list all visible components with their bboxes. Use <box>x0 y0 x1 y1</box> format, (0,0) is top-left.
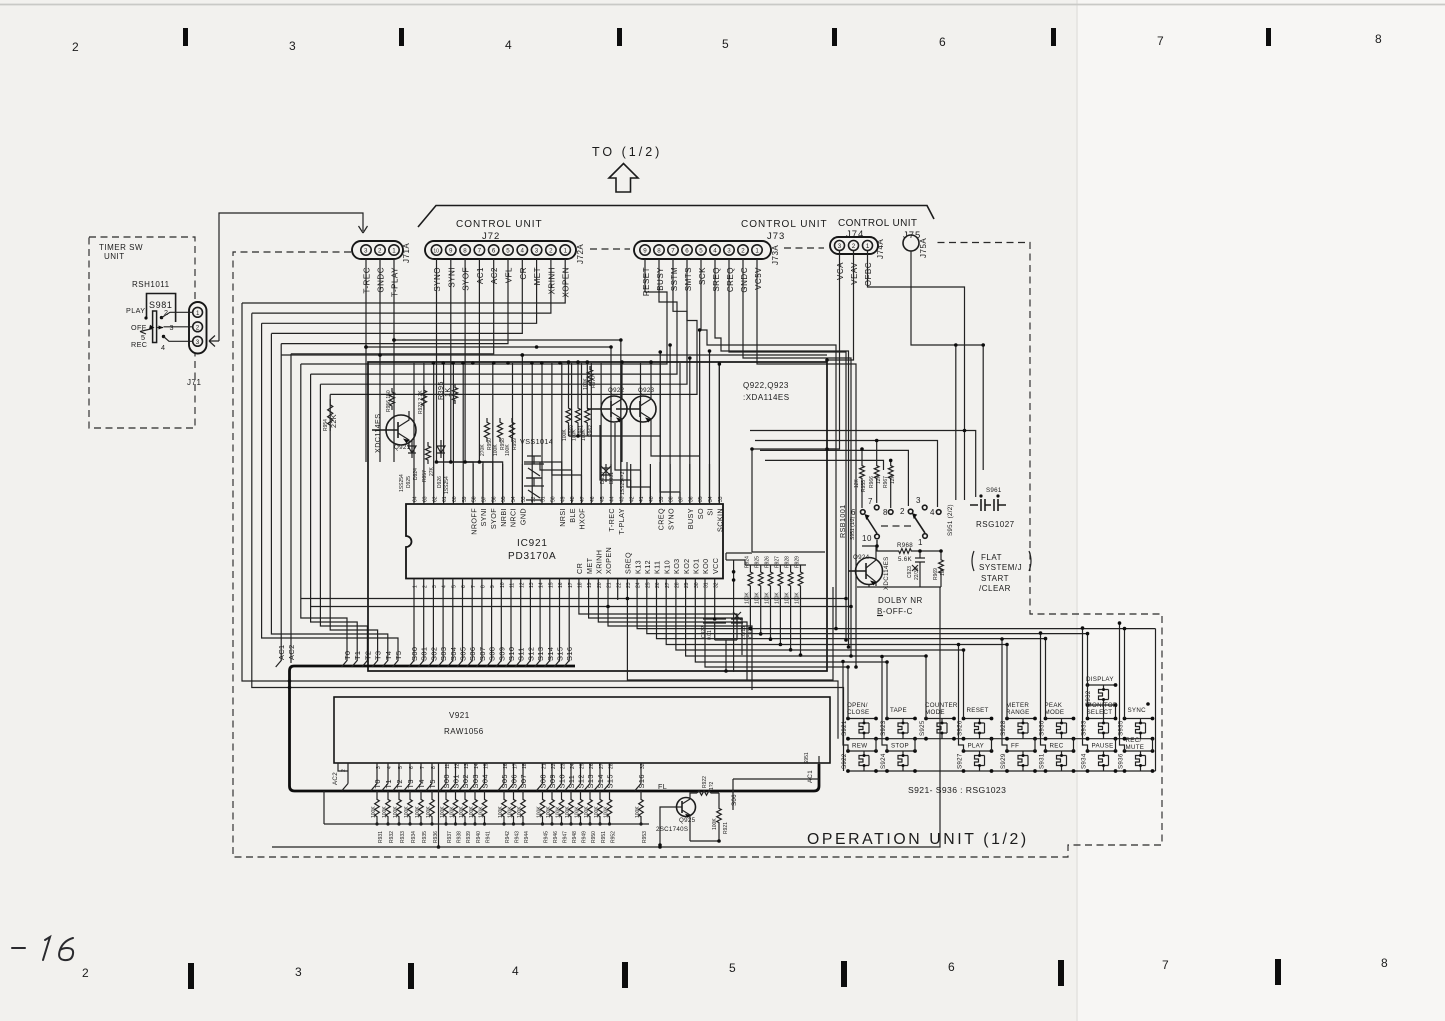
svg-text:21: 21 <box>607 582 613 588</box>
svg-text:R937: R937 <box>447 831 453 843</box>
svg-text:XRINH: XRINH <box>595 550 604 574</box>
resistor R953 100K <box>640 791 642 796</box>
svg-text:S16: S16 <box>565 647 574 661</box>
svg-text:R922: R922 <box>702 776 708 788</box>
label FLAT SYSTEM/J <box>972 551 1031 571</box>
op-amp IC921 PD3170A body <box>406 504 723 579</box>
svg-text:46: 46 <box>590 496 596 502</box>
svg-text:S01: S01 <box>420 647 429 661</box>
wire VCA <box>827 251 840 449</box>
svg-text:K11: K11 <box>653 561 662 574</box>
svg-text:CREQ: CREQ <box>657 508 666 530</box>
svg-text:16: 16 <box>558 582 564 588</box>
svg-text:AC2: AC2 <box>287 644 296 660</box>
svg-text:D931: D931 <box>609 472 615 484</box>
svg-text:100K: 100K <box>507 806 513 818</box>
svg-text:S14: S14 <box>546 647 555 661</box>
svg-text:J71: J71 <box>187 378 201 387</box>
svg-text:T2: T2 <box>363 651 372 660</box>
svg-text:RESET: RESET <box>967 707 989 714</box>
svg-text:S00: S00 <box>410 647 419 661</box>
svg-text:SYNI: SYNI <box>479 508 488 526</box>
svg-text:XOPEN: XOPEN <box>562 267 571 298</box>
resistor ladder common rail <box>324 791 649 824</box>
svg-text:8: 8 <box>883 508 888 517</box>
svg-text:14: 14 <box>474 763 480 769</box>
wire bundle J72 pins 1-6 to left bus <box>242 259 565 354</box>
resistor R968 5.6K <box>896 549 914 554</box>
svg-text:R951: R951 <box>601 831 607 843</box>
svg-text:R923 2.2K: R923 2.2K <box>418 390 424 414</box>
connector J71A <box>352 241 411 263</box>
svg-text:XRINH: XRINH <box>547 267 556 294</box>
svg-text:5: 5 <box>729 961 737 975</box>
svg-text:K13: K13 <box>633 560 642 574</box>
svg-text:63: 63 <box>423 496 429 502</box>
resistor R923 2.2K <box>421 386 426 410</box>
svg-text:C923: C923 <box>907 566 913 578</box>
rotary contact numbers <box>851 496 935 547</box>
IC921 bottom pin stubs and numbers 1-32 <box>414 579 715 601</box>
svg-text:23: 23 <box>561 763 567 769</box>
svg-text:STOP: STOP <box>891 743 909 750</box>
svg-text:S951 (1/2): S951 (1/2) <box>850 516 856 540</box>
svg-text:S03: S03 <box>439 647 448 661</box>
svg-text:SSTM: SSTM <box>670 267 679 291</box>
svg-text:23: 23 <box>626 582 632 588</box>
svg-text:S07: S07 <box>478 647 487 661</box>
switch S927 PLAY <box>957 743 994 772</box>
wires 12K resistors <box>862 441 891 509</box>
resistor R969 1M <box>939 556 944 577</box>
svg-text:12: 12 <box>519 582 525 588</box>
svg-text:OFF: OFF <box>131 323 147 332</box>
svg-text:3: 3 <box>295 965 303 979</box>
svg-text:25: 25 <box>645 582 651 588</box>
svg-text:8: 8 <box>1381 956 1389 970</box>
svg-text:100K: 100K <box>440 806 446 818</box>
svg-text:100K: 100K <box>493 444 499 456</box>
J72 pin labels <box>433 267 571 298</box>
resistor R943 100K <box>513 791 515 796</box>
svg-text:5: 5 <box>141 333 145 342</box>
svg-text:60: 60 <box>452 496 458 502</box>
svg-text:1: 1 <box>196 310 200 317</box>
svg-text:8: 8 <box>1375 32 1383 46</box>
wire J75 down <box>911 251 983 470</box>
svg-text:J71A: J71A <box>402 243 411 263</box>
svg-text:4: 4 <box>521 248 525 255</box>
svg-text:100K: 100K <box>744 592 750 604</box>
switch S981 <box>126 294 176 353</box>
svg-text:S921: S921 <box>841 720 848 736</box>
resistor R947 100K <box>561 791 563 796</box>
svg-text:T3: T3 <box>374 651 383 660</box>
svg-text:PLAY: PLAY <box>126 306 145 315</box>
svg-text:R957: R957 <box>422 470 428 482</box>
wire J73 SCK SREQ CREQ GNDC VC5V to right <box>701 259 856 667</box>
svg-text:MET: MET <box>533 267 542 285</box>
svg-text:CLOSE: CLOSE <box>847 709 869 716</box>
svg-text:DOLBY NR: DOLBY NR <box>878 596 923 605</box>
svg-text:PD3170A: PD3170A <box>508 551 556 562</box>
svg-text:S13: S13 <box>536 647 545 661</box>
svg-text:2: 2 <box>422 585 428 588</box>
svg-text:SELECT: SELECT <box>1087 709 1113 716</box>
svg-text:7: 7 <box>1162 958 1170 972</box>
resistor R927 100K <box>778 568 783 590</box>
svg-text:TAPE: TAPE <box>890 707 907 714</box>
svg-text:100K: 100K <box>583 378 589 390</box>
resistor R941 100K <box>484 791 486 796</box>
svg-text:MUTE: MUTE <box>1126 744 1145 751</box>
wire feeds to rotary switch <box>750 345 976 507</box>
svg-text:SREQ: SREQ <box>712 267 721 292</box>
resistor row top rail <box>726 553 806 565</box>
resistor R921 100K <box>714 793 719 805</box>
svg-text:CONTROL UNIT: CONTROL UNIT <box>456 219 543 230</box>
resistor R938 100K <box>455 791 457 796</box>
svg-text:SREQ: SREQ <box>624 552 633 574</box>
svg-text:CREQ: CREQ <box>726 267 735 292</box>
svg-text:58: 58 <box>472 496 478 502</box>
diode D926 1SS254 <box>437 440 445 458</box>
svg-text:S951 (2/2): S951 (2/2) <box>947 504 954 536</box>
svg-text:R935: R935 <box>422 831 428 843</box>
svg-text:51: 51 <box>541 496 547 502</box>
transistor Q925 <box>676 797 696 818</box>
svg-text:9: 9 <box>449 248 453 255</box>
svg-text:K12: K12 <box>643 560 652 574</box>
svg-text:SO: SO <box>696 508 705 519</box>
svg-text:SCK: SCK <box>698 267 707 285</box>
resistor R970 100K <box>587 366 592 386</box>
svg-text:VSS1014: VSS1014 <box>520 437 553 446</box>
svg-text:6: 6 <box>939 35 947 49</box>
resistor R924 100K <box>748 568 753 590</box>
svg-text:S11: S11 <box>517 647 526 661</box>
svg-text:17: 17 <box>513 763 519 769</box>
wire row2 feeds <box>876 739 1153 751</box>
svg-text:S921- S936 : RSG1023: S921- S936 : RSG1023 <box>908 785 1006 795</box>
svg-text:S928: S928 <box>1000 720 1007 736</box>
svg-text:53: 53 <box>521 496 527 502</box>
svg-text:27: 27 <box>599 763 605 769</box>
svg-text:4: 4 <box>930 508 935 517</box>
svg-text:REW: REW <box>852 743 867 750</box>
wire dolby bottom rail <box>848 571 941 587</box>
rotary wiper arms <box>867 518 877 534</box>
svg-text:S923: S923 <box>880 720 887 736</box>
svg-text:100K: 100K <box>572 429 578 441</box>
resistor R939 100K <box>464 791 466 796</box>
svg-text:7: 7 <box>420 766 426 769</box>
capacitor C922 0.01 <box>703 610 726 640</box>
resistor R950 100K <box>589 791 591 796</box>
wire J72 pins 7-10 to IC921 <box>437 259 503 504</box>
svg-text:COUNTER: COUNTER <box>925 702 958 709</box>
wire bottom long rail <box>272 587 940 847</box>
svg-text:18: 18 <box>578 582 584 588</box>
svg-text:100K: 100K <box>415 806 421 818</box>
wire V921 spare pin to bottom rail <box>438 763 440 847</box>
svg-text:S936: S936 <box>1118 753 1125 769</box>
svg-text:VFL: VFL <box>505 267 514 283</box>
svg-text:4: 4 <box>505 38 513 52</box>
handwritten page number -16 <box>12 937 73 960</box>
svg-text:28: 28 <box>675 582 681 588</box>
svg-text:100K: 100K <box>404 806 410 818</box>
dashed link J72A-J73 <box>590 248 630 250</box>
svg-text:18: 18 <box>522 763 528 769</box>
svg-text:SYNO: SYNO <box>666 508 675 530</box>
switch S931 REC <box>1039 743 1076 772</box>
svg-text:XOPEN: XOPEN <box>604 547 613 574</box>
svg-text:100K: 100K <box>774 592 780 604</box>
resistor R962 100K <box>585 404 590 427</box>
svg-text:9: 9 <box>643 248 647 255</box>
svg-text:4: 4 <box>713 248 717 255</box>
svg-text:BUSY: BUSY <box>656 267 665 291</box>
svg-text:FLAT: FLAT <box>981 553 1002 562</box>
svg-text:10: 10 <box>862 534 872 543</box>
svg-text:33: 33 <box>718 496 724 502</box>
svg-text:R944: R944 <box>524 831 530 843</box>
svg-text:S926: S926 <box>957 720 964 736</box>
svg-text:30: 30 <box>694 582 700 588</box>
transistor Q924 <box>848 553 883 586</box>
wires V921 pins down to FL harness <box>377 763 641 784</box>
svg-text:R970: R970 <box>591 376 597 388</box>
switch S936 REC/MUTE <box>1118 737 1155 771</box>
svg-text:R952: R952 <box>611 831 617 843</box>
resistor R960 100K <box>566 404 571 427</box>
svg-text:GNDC: GNDC <box>377 267 386 293</box>
svg-text:100K: 100K <box>478 806 484 818</box>
svg-text:13: 13 <box>464 763 470 769</box>
svg-text:UNIT: UNIT <box>104 252 125 261</box>
resistor R959 100K <box>509 418 514 442</box>
svg-text:R966: R966 <box>869 476 875 488</box>
svg-text:2SC1740S: 2SC1740S <box>656 826 688 833</box>
svg-text:START: START <box>981 574 1009 583</box>
svg-text:V921: V921 <box>449 711 470 720</box>
svg-text:SYOF: SYOF <box>462 267 471 291</box>
svg-text:S02: S02 <box>429 647 438 661</box>
svg-text:VCA: VCA <box>836 262 845 280</box>
svg-text:VCC: VCC <box>711 558 720 574</box>
svg-text:32: 32 <box>640 763 646 769</box>
resistor R928 100K <box>788 568 793 590</box>
transistor Q923 <box>616 392 656 426</box>
svg-text:3: 3 <box>376 766 382 769</box>
svg-text:39: 39 <box>659 496 665 502</box>
resistor R949 100K <box>580 791 582 796</box>
svg-text:26: 26 <box>589 763 595 769</box>
svg-text:7: 7 <box>471 585 477 588</box>
svg-text:OPEN/: OPEN/ <box>847 702 868 709</box>
harness entry ticks upper row <box>276 661 570 668</box>
svg-text:GND: GND <box>519 508 528 525</box>
svg-text:CR: CR <box>519 267 528 280</box>
svg-text:R940: R940 <box>476 831 482 843</box>
resistor R926 100K <box>768 568 773 590</box>
wire branches to IC pins 33-39 <box>660 330 719 504</box>
svg-text:RAW1056: RAW1056 <box>444 727 484 736</box>
svg-text:CONTROL UNIT: CONTROL UNIT <box>838 218 917 229</box>
svg-text:R947: R947 <box>563 831 569 843</box>
svg-text:R927: R927 <box>774 556 780 568</box>
svg-text:/CLEAR: /CLEAR <box>979 584 1011 593</box>
svg-text:NROFF: NROFF <box>469 508 478 535</box>
svg-text:R945: R945 <box>544 831 550 843</box>
wire VEAV <box>827 251 854 360</box>
switch S922 REW <box>841 743 878 772</box>
svg-text:Q922,Q923: Q922,Q923 <box>743 381 789 390</box>
svg-text:3: 3 <box>535 248 539 255</box>
svg-text:AC2: AC2 <box>332 772 339 785</box>
svg-text:3: 3 <box>170 323 174 332</box>
svg-text:3: 3 <box>727 248 731 255</box>
resistor R936 100K <box>431 791 433 796</box>
wire joins above IC <box>437 423 681 504</box>
svg-text:J73A: J73A <box>771 245 780 265</box>
wire R968 to C923 R969 <box>914 551 941 558</box>
svg-text:T0: T0 <box>343 651 352 660</box>
switch S925 COUNTERMODE <box>919 702 958 739</box>
svg-text:3: 3 <box>289 39 297 53</box>
left vertical bus wires down <box>242 303 844 771</box>
resistor R950 270K <box>484 418 489 442</box>
svg-text:R953: R953 <box>642 831 648 843</box>
connector J72 <box>425 241 585 264</box>
svg-text:50: 50 <box>551 496 557 502</box>
svg-text:R969: R969 <box>933 568 939 580</box>
svg-text:52: 52 <box>531 496 537 502</box>
transistor Q922 <box>587 392 627 426</box>
svg-text:S924: S924 <box>880 753 887 769</box>
switch S926 RESET <box>957 707 994 739</box>
svg-text:56: 56 <box>491 496 497 502</box>
svg-text:9: 9 <box>490 585 496 588</box>
svg-text:8: 8 <box>463 248 467 255</box>
svg-text:MODE: MODE <box>925 709 945 716</box>
svg-text:R942: R942 <box>505 831 511 843</box>
svg-text:62: 62 <box>432 496 438 502</box>
svg-text:2: 2 <box>852 243 856 250</box>
resistor R954 22K <box>328 399 333 431</box>
svg-text:S981: S981 <box>149 300 172 310</box>
svg-text:4: 4 <box>161 343 165 352</box>
svg-text:3: 3 <box>916 496 921 505</box>
svg-text:GNDC: GNDC <box>740 267 749 293</box>
wire Q924 collector up <box>862 540 877 553</box>
svg-text:VC5V: VC5V <box>754 267 763 290</box>
V921 pin 2 jog <box>338 763 348 791</box>
svg-text:METER: METER <box>1006 702 1029 709</box>
dashed link J73A-J74 <box>784 247 824 249</box>
svg-text:SYNO: SYNO <box>433 267 442 292</box>
svg-text:R949: R949 <box>582 831 588 843</box>
svg-text:100K: 100K <box>536 806 542 818</box>
svg-text:T5: T5 <box>394 651 403 660</box>
wire matrix column feeds <box>848 629 1125 719</box>
svg-text:1SS254: 1SS254 <box>444 476 450 494</box>
svg-text:2: 2 <box>378 248 382 255</box>
svg-text:R956 150: R956 150 <box>386 390 392 412</box>
svg-text:5.6K: 5.6K <box>898 556 913 563</box>
resistor R967 12K <box>888 462 893 482</box>
svg-text:SYNC: SYNC <box>1128 707 1147 714</box>
svg-text:CR: CR <box>575 563 584 574</box>
svg-text:54: 54 <box>511 496 517 502</box>
svg-text:3: 3 <box>838 243 842 250</box>
switch S930 PEAKMODE <box>1039 702 1076 739</box>
svg-text:5: 5 <box>699 248 703 255</box>
svg-text:100K: 100K <box>449 806 455 818</box>
svg-text:17: 17 <box>568 582 574 588</box>
svg-text:100K: 100K <box>765 592 771 604</box>
svg-text:PLAY: PLAY <box>968 743 985 750</box>
wire inner partition <box>752 449 836 552</box>
svg-text:J72A: J72A <box>576 244 585 264</box>
svg-text:2: 2 <box>196 324 200 331</box>
control unit bracket <box>418 206 934 228</box>
svg-text:8: 8 <box>481 585 487 588</box>
bottom ruler tick marks <box>188 959 1281 989</box>
resistor R935 100K <box>420 791 422 796</box>
svg-text:45: 45 <box>600 496 606 502</box>
svg-text:100K: 100K <box>795 592 801 604</box>
svg-text:22/35: 22/35 <box>914 567 920 580</box>
J73 pin labels <box>642 267 763 296</box>
svg-text:RSB1001: RSB1001 <box>838 504 847 538</box>
svg-text:100K: 100K <box>517 806 523 818</box>
svg-text:R948: R948 <box>572 831 578 843</box>
svg-text:IC921: IC921 <box>517 538 548 549</box>
svg-text:22: 22 <box>551 763 557 769</box>
svg-text:5: 5 <box>398 766 404 769</box>
svg-text:S06: S06 <box>731 794 738 806</box>
svg-text:24: 24 <box>636 582 642 588</box>
svg-text:R946: R946 <box>553 831 559 843</box>
svg-text:J75A: J75A <box>919 238 928 258</box>
wire S981 to J71 pins <box>162 312 193 341</box>
svg-text:22K: 22K <box>329 414 338 428</box>
svg-text:S934: S934 <box>1081 753 1088 769</box>
svg-text:6: 6 <box>851 508 856 517</box>
svg-text:1.0/16: 1.0/16 <box>741 626 747 640</box>
resistor R937 100K <box>445 791 447 796</box>
svg-text::XDA114ES: :XDA114ES <box>743 393 790 402</box>
svg-text:100K: 100K <box>555 806 561 818</box>
connector J75 <box>903 235 928 258</box>
svg-text:15: 15 <box>484 763 490 769</box>
svg-text:T-REC: T-REC <box>607 508 616 532</box>
svg-text:SI: SI <box>706 508 715 516</box>
svg-text:SYSTEM/J: SYSTEM/J <box>979 563 1022 572</box>
svg-text:19: 19 <box>587 582 593 588</box>
svg-text:12: 12 <box>455 763 461 769</box>
svg-text:6: 6 <box>461 585 467 588</box>
svg-text:1SS254: 1SS254 <box>399 474 405 492</box>
svg-text:21: 21 <box>542 763 548 769</box>
svg-text:61: 61 <box>442 496 448 502</box>
resistor R933 100K <box>398 791 400 796</box>
svg-text:100K: 100K <box>785 592 791 604</box>
svg-text:100K: 100K <box>371 806 377 818</box>
svg-text:K10: K10 <box>662 560 671 574</box>
